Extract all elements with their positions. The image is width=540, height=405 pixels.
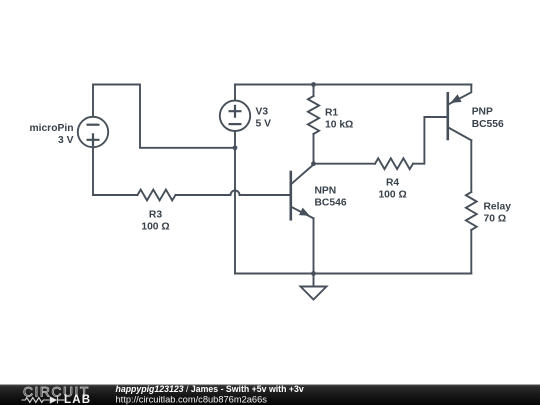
wire top rail V3 to PNP emitter [235, 84, 471, 86]
svg-text:R3: R3 [149, 209, 162, 220]
wire R1 bottom lead [313, 134, 315, 164]
footer bar [0, 385, 540, 405]
transistor Q2 PNP BC556 body bar [446, 93, 449, 139]
svg-text:100 Ω: 100 Ω [141, 221, 169, 232]
resistor R1 [308, 96, 319, 134]
ground stem [313, 274, 315, 287]
svg-text:5 V: 5 V [256, 119, 272, 130]
transistor Q2 emitter arrow [450, 94, 461, 103]
wire microPin bottom stub [92, 147, 94, 195]
svg-text:3 V: 3 V [58, 135, 74, 146]
voltage source V3 minus sign [230, 123, 241, 125]
ground triangle [301, 287, 327, 300]
resistor R3 [138, 190, 176, 201]
wire V3 top stub [234, 85, 236, 101]
svg-text:70 Ω: 70 Ω [484, 213, 507, 224]
svg-text:10 kΩ: 10 kΩ [325, 120, 353, 131]
wire R3 left lead [93, 194, 138, 196]
voltage source microPin plus sign [88, 134, 99, 145]
voltage source V3 circle [220, 101, 250, 131]
junction node V3 minus / microPin [233, 145, 238, 150]
CircuitLab logo diode triangle [50, 396, 57, 403]
wire R4 to PNP base [413, 117, 447, 164]
CircuitLab logo mini schematic wire resistor diode [22, 397, 65, 404]
svg-text:happypig123123 / James - Swith: happypig123123 / James - Swith +5v with … [116, 384, 304, 394]
voltage source microPin circle [78, 117, 108, 147]
wire junction to R4 [314, 163, 376, 165]
svg-text:http://circuitlab.com/c8ub876m: http://circuitlab.com/c8ub876m2a66s [116, 394, 268, 404]
wire relay bottom lead [470, 230, 472, 274]
svg-text:Relay: Relay [484, 201, 512, 212]
svg-text:microPin: microPin [29, 123, 73, 134]
transistor Q1 emitter diagonal [291, 207, 313, 219]
wire PNP collector to relay [470, 140, 472, 192]
voltage source V3 plus sign [230, 106, 241, 117]
wire NPN emitter to bottom rail [313, 218, 315, 273]
svg-text:NPN: NPN [315, 186, 337, 197]
junction node ground [311, 271, 316, 276]
transistor Q2 emitter stub and diagonal [449, 85, 472, 105]
svg-text:R1: R1 [325, 108, 338, 119]
wire V3 bottom vertical to bottom rail [234, 131, 236, 274]
transistor Q1 emitter arrow [299, 208, 310, 216]
svg-text:LAB: LAB [64, 394, 91, 405]
svg-text:BC546: BC546 [315, 198, 347, 209]
svg-text:V3: V3 [256, 107, 269, 118]
transistor Q1 NPN BC546 body bar [289, 172, 292, 219]
svg-text:100 Ω: 100 Ω [378, 190, 406, 201]
svg-text:R4: R4 [386, 178, 399, 189]
junction node R1 / R4 / collector [311, 161, 316, 166]
wire R1 top lead [313, 85, 315, 97]
junction node top rail / R1 [311, 82, 316, 87]
wire R3 right lead with hop over vertical wire [176, 191, 291, 196]
svg-text:PNP: PNP [472, 107, 493, 118]
wire bottom rail [235, 273, 471, 275]
resistor Relay coil [466, 192, 477, 230]
svg-text:BC556: BC556 [472, 119, 504, 130]
transistor Q1 collector diagonal [292, 165, 314, 184]
resistor R4 [375, 158, 413, 169]
wire microPin top loop [93, 85, 233, 148]
transistor Q2 collector diagonal [449, 128, 472, 141]
voltage source microPin minus sign [88, 124, 99, 126]
